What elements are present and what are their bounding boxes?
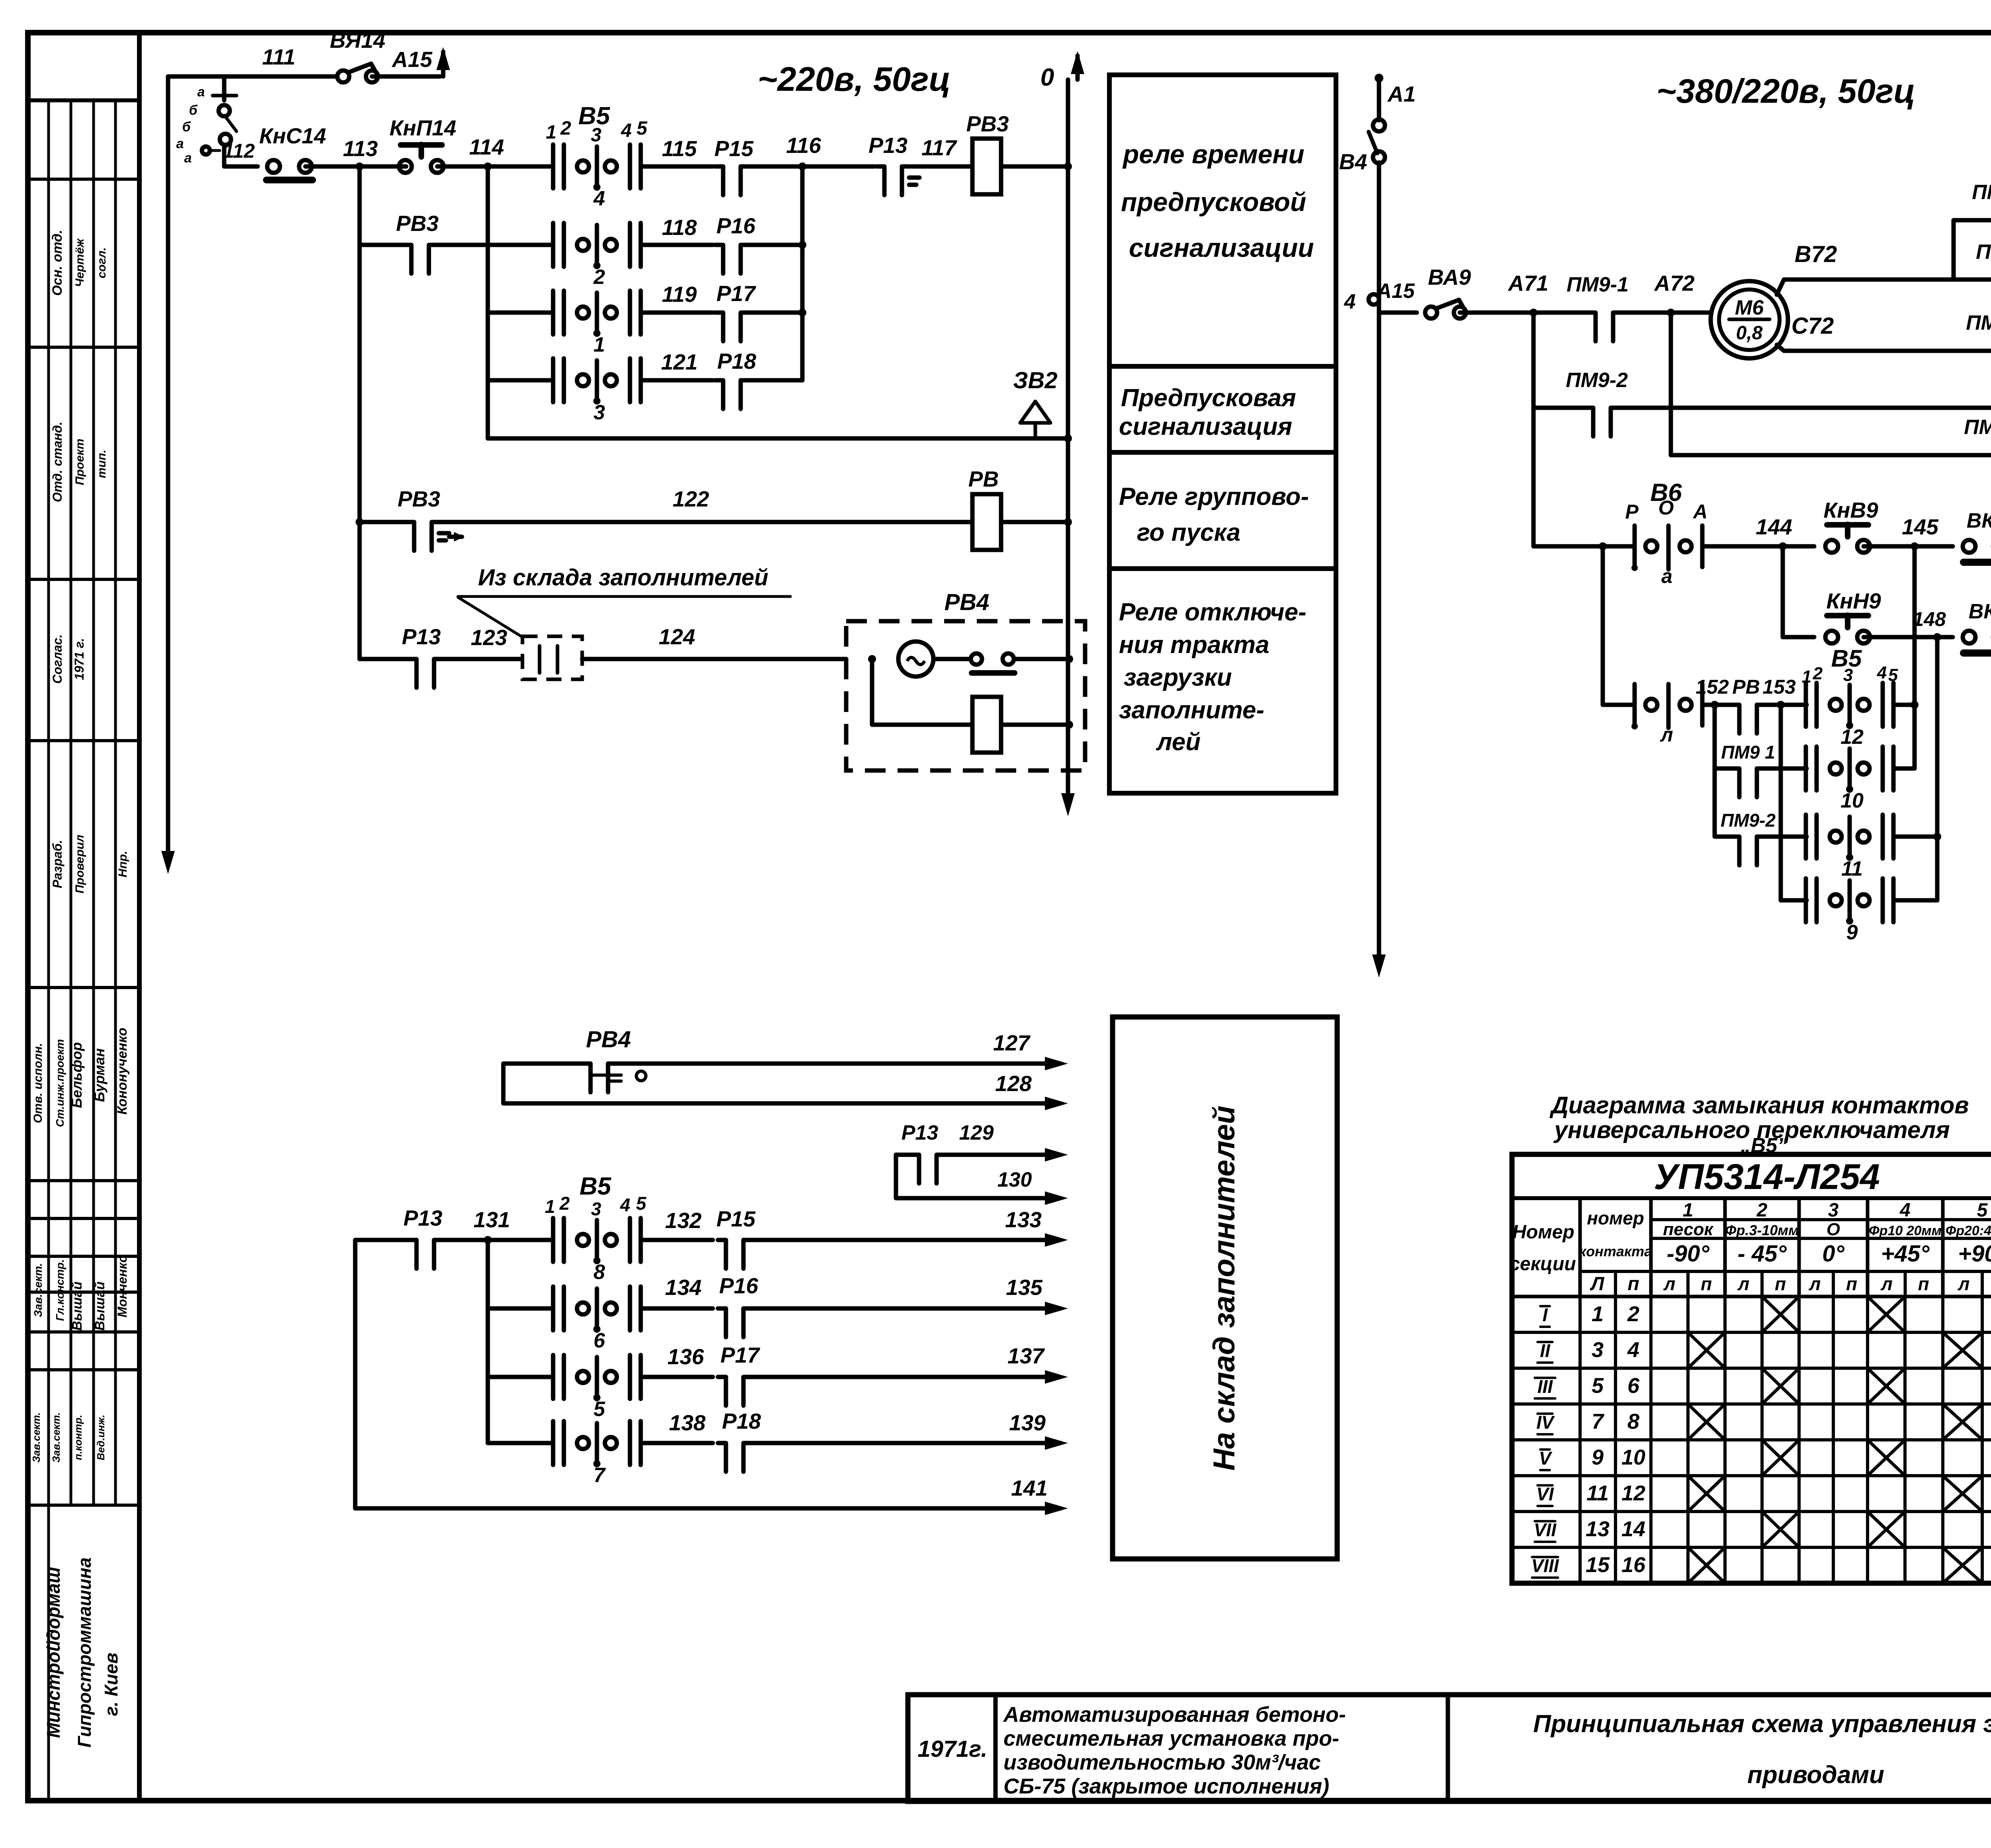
node 144 start (1599, 542, 1607, 550)
svg-text:а: а (1661, 565, 1672, 587)
svg-text:изводительностью 30м³/час: изводительностью 30м³/час (1003, 1750, 1321, 1774)
svg-text:Гипростроммашина: Гипростроммашина (74, 1557, 95, 1748)
limit switch ВК7 (1963, 540, 1975, 553)
wire 117 segment (912, 164, 972, 169)
svg-text:Бельфор: Бельфор (68, 1042, 85, 1108)
svg-text:Минстройдормаш: Минстройдормаш (43, 1567, 64, 1738)
svg-text:II: II (1540, 1340, 1551, 1361)
svg-text:114: 114 (469, 135, 504, 159)
arrow wire 127 (1045, 1057, 1068, 1070)
svg-text:Р16: Р16 (716, 213, 755, 238)
svg-text:А: А (1692, 501, 1707, 523)
svg-text:I: I (1543, 1304, 1548, 1325)
svg-text:15: 15 (1586, 1553, 1610, 1577)
svg-text:б: б (189, 103, 198, 118)
svg-text:4: 4 (1627, 1338, 1639, 1362)
svg-text:12: 12 (1840, 726, 1864, 749)
svg-text:УП5314-Л254: УП5314-Л254 (1654, 1157, 1880, 1197)
wire to node А71 (1460, 311, 1533, 315)
svg-text:2: 2 (593, 266, 605, 289)
contact ПМ9-1 (В phase main) (1954, 278, 1991, 282)
svg-text:137: 137 (1007, 1343, 1045, 1368)
svg-text:номер: номер (1587, 1208, 1644, 1228)
wire A15 segment with up arrow (372, 74, 440, 79)
svg-text:Реле отключе-: Реле отключе- (1119, 598, 1306, 626)
svg-text:Отд. станд.: Отд. станд. (50, 422, 65, 503)
svg-text:116: 116 (786, 133, 821, 158)
wire 141 segment (355, 1506, 1045, 1511)
wire 137 segment (751, 1375, 1045, 1379)
svg-text:Р17: Р17 (716, 281, 756, 306)
wire row11 right to node 148 vertical (1893, 835, 1937, 839)
wire 144 segment (1702, 544, 1814, 549)
svg-text:ВЯ14: ВЯ14 (330, 28, 385, 53)
wire row 138 from node vertical (488, 1441, 553, 1445)
switch В5 section contact 7 (row 138) (551, 1421, 555, 1465)
contact Р16 (row 134) (726, 1305, 744, 1312)
svg-text:8: 8 (1627, 1410, 1639, 1433)
svg-text:п: п (1627, 1273, 1639, 1295)
svg-text:4: 4 (1899, 1200, 1911, 1221)
svg-text:Зав.сект.: Зав.сект. (30, 1412, 42, 1463)
svg-text:Отв. исполн.: Отв. исполн. (31, 1043, 45, 1123)
contact Р13 (row 123) (360, 657, 522, 661)
wire row9 right to node 148 vertical (1893, 898, 1937, 903)
svg-text:Р13: Р13 (902, 1121, 939, 1144)
title block outer box (908, 1695, 1991, 1801)
svg-text:РВ4: РВ4 (945, 589, 990, 615)
svg-text:В72: В72 (1795, 241, 1837, 267)
wire row10 right to node 145 vertical (1893, 767, 1915, 771)
svg-text:4: 4 (620, 1195, 630, 1215)
switch В5 section contact 3 (row 4) (551, 358, 555, 402)
svg-text:5: 5 (594, 1398, 606, 1421)
arrow rail А1 bottom (1372, 954, 1386, 978)
svg-text:14: 14 (1621, 1517, 1645, 1541)
left stamp strip top box divider (28, 98, 139, 102)
svg-text:Фр10 20мм: Фр10 20мм (1869, 1223, 1942, 1238)
wire 118 segment (641, 243, 713, 247)
wire row4 to right vertical (749, 378, 802, 383)
wire 133 segment (751, 1238, 1045, 1242)
svg-text:Вышай: Вышай (70, 1281, 85, 1331)
svg-text:5: 5 (1977, 1200, 1988, 1221)
wire row3 to right vertical (749, 311, 802, 315)
bell inside РВ4 box (898, 641, 933, 677)
svg-text:122: 122 (673, 487, 709, 511)
node 148 (1933, 633, 1941, 641)
text box: Предпусковая сигнализация (1109, 366, 1336, 452)
wire from РВ coil to rail 0 (1001, 520, 1068, 524)
switch В5 section contact 6 (row 134) (551, 1287, 555, 1330)
svg-text:Гл.констр.: Гл.констр. (54, 1259, 66, 1321)
button КнН9 (reverse pushbutton) (1783, 635, 1814, 639)
arrow rail 0 top (1076, 56, 1080, 80)
text box: Реле группового пуска (1109, 452, 1336, 569)
svg-text:Р13: Р13 (402, 624, 441, 649)
contact ПМ9-2 (А71 branch row) (1531, 313, 1536, 546)
node at 114 junction (484, 162, 492, 170)
svg-text:КнВ9: КнВ9 (1823, 498, 1878, 522)
arrow wire 133 (1045, 1233, 1068, 1247)
svg-text:го пуска: го пуска (1137, 519, 1240, 546)
wire 113 segment (305, 164, 406, 169)
svg-text:2: 2 (560, 118, 571, 139)
svg-text:138: 138 (669, 1410, 706, 1435)
wire С72 from motor (1777, 345, 1965, 351)
svg-text:2: 2 (1756, 1200, 1768, 1221)
contact Р18 (row 4) (723, 377, 741, 383)
svg-text:Реле группово-: Реле группово- (1119, 483, 1309, 510)
wire 115 segment (641, 164, 713, 169)
wire 130 bracket (896, 1155, 1045, 1198)
svg-text:6: 6 (1627, 1374, 1640, 1398)
wire lower branch in РВ4 box (872, 659, 972, 725)
row 144: В6 switch contact а (1533, 544, 1635, 549)
svg-text:+90°: +90° (1958, 1241, 1991, 1267)
svg-text:1: 1 (1683, 1200, 1694, 1221)
svg-text:Осн. отд.: Осн. отд. (50, 230, 65, 296)
wire row152 right to node 145 vertical (1893, 703, 1915, 707)
row 152: В6 switch contact л (1603, 703, 1635, 707)
svg-text:На склад заполнителей: На склад заполнителей (1207, 1106, 1241, 1471)
contact ПМ9 1 (row 10) (1715, 767, 1739, 771)
switch В5 section contact 5 (row 136) (551, 1355, 555, 1399)
svg-text:ПМ9 1: ПМ9 1 (1721, 742, 1775, 763)
svg-text:Диаграмма замыкания контактов: Диаграмма замыкания контактов (1549, 1092, 1969, 1119)
motor М6 0,8кВт (1711, 281, 1788, 358)
svg-text:ЗВ2: ЗВ2 (1013, 368, 1057, 393)
node 153 (1777, 701, 1785, 709)
svg-text:б: б (182, 119, 191, 135)
wire vertical 114 branch down (486, 166, 490, 438)
svg-text:112: 112 (223, 140, 255, 162)
svg-text:ПМ9-2: ПМ9-2 (1721, 810, 1776, 831)
relay coil inside РВ4 box (972, 697, 1001, 753)
wire right vertical joining rows 1-4 (800, 166, 805, 380)
relay coil РВ3 (972, 139, 1001, 194)
wire 119 segment (641, 311, 713, 315)
contact ПМ9-1 (А phase) (1595, 309, 1614, 316)
svg-text:КнС14: КнС14 (259, 123, 326, 148)
node А72 (1667, 309, 1675, 317)
svg-text:приводами: приводами (1747, 1761, 1884, 1789)
svg-text:148: 148 (1913, 608, 1946, 630)
wire 114 segment (437, 164, 553, 169)
wire row2 to right vertical (749, 243, 802, 247)
svg-text:А15: А15 (391, 47, 433, 72)
wire 148 segment (1864, 635, 1953, 639)
svg-text:реле времени: реле времени (1122, 139, 1305, 169)
svg-text:ПМ9-1: ПМ9-1 (1976, 241, 1991, 264)
svg-text:С72: С72 (1792, 313, 1834, 339)
wire 128 bracket (503, 1064, 1045, 1103)
svg-text:Соглас.: Соглас. (50, 634, 65, 684)
svg-text:153: 153 (1762, 676, 1796, 698)
svg-text:Р18: Р18 (722, 1409, 761, 1433)
svg-text:сигнализация: сигнализация (1119, 413, 1292, 440)
contact Р15 (row 131) (726, 1237, 744, 1243)
svg-text:11: 11 (1841, 857, 1863, 880)
contact Р17 (row 136) (726, 1374, 744, 1380)
svg-text:124: 124 (659, 624, 695, 649)
svg-text:1971 г.: 1971 г. (72, 638, 86, 680)
svg-text:0,8: 0,8 (1736, 323, 1763, 344)
table В5 header УП5314-Л254 (1512, 1196, 1991, 1200)
svg-text:л: л (1737, 1273, 1750, 1294)
svg-text:п: п (1918, 1273, 1929, 1294)
svg-text:128: 128 (995, 1071, 1032, 1096)
wire row 136 from node vertical (488, 1375, 553, 1379)
switch В5 section contact 4 (row 1) (551, 145, 555, 188)
svg-text:л: л (1663, 1273, 1676, 1294)
contact ПМ9-2 (row 11) (1715, 835, 1739, 839)
svg-text:-90°: -90° (1666, 1241, 1709, 1267)
table В5 data grid rows (1512, 1295, 1991, 1298)
svg-text:Р18: Р18 (717, 349, 756, 374)
contact РВ4 time-delay (row 127) (503, 1062, 1045, 1066)
text box column: реле времени предпусковой сигнализации (1109, 75, 1336, 366)
svg-text:а: а (198, 84, 205, 100)
svg-text:л: л (1880, 1273, 1893, 1294)
svg-text:РВ3: РВ3 (396, 211, 439, 236)
svg-text:Монченко: Монченко (115, 1255, 129, 1317)
svg-text:В5: В5 (579, 1173, 612, 1200)
svg-text:~380/220в, 50гц: ~380/220в, 50гц (1657, 72, 1915, 110)
svg-text:А71: А71 (1508, 271, 1549, 295)
svg-text:сигнализации: сигнализации (1129, 233, 1314, 262)
svg-text:144: 144 (1756, 514, 1792, 539)
svg-text:Р15: Р15 (716, 1207, 756, 1231)
table В5 data grid columns (1578, 1297, 1582, 1583)
button КнС14 (stop pushbutton, NC) (267, 160, 280, 173)
contact ПМ9-2 (А72 branch row) (1669, 313, 1673, 455)
svg-text:129: 129 (959, 1121, 994, 1144)
svg-text:IV: IV (1536, 1412, 1555, 1433)
svg-text:131: 131 (473, 1207, 510, 1232)
svg-text:Принципиальная схема управлени: Принципиальная схема управления электро- (1533, 1710, 1991, 1738)
wire 132 segment (641, 1238, 713, 1242)
wire С71 segment (1965, 349, 1991, 353)
contact РВ (row 152) (1739, 702, 1757, 708)
left stamp strip column line 4 (114, 100, 117, 1505)
svg-text:ния тракта: ния тракта (1119, 631, 1269, 659)
svg-text:Проект: Проект (73, 439, 86, 485)
svg-text:4: 4 (593, 187, 605, 210)
contact РВ3 (row 2) (360, 243, 553, 247)
title block dividers (994, 1695, 998, 1801)
svg-text:12: 12 (1621, 1481, 1645, 1505)
svg-text:тип.: тип. (95, 450, 108, 478)
svg-text:Зав.сект.: Зав.сект. (32, 1263, 44, 1317)
svg-text:0: 0 (1040, 64, 1054, 91)
contact inside РВ4 box (933, 657, 970, 661)
svg-text:Зав.сект.: Зав.сект. (50, 1412, 62, 1463)
svg-text:5: 5 (636, 1193, 647, 1214)
node 131 (484, 1236, 492, 1244)
switch В5 section contact 11 (row 11) (1804, 815, 1808, 858)
svg-text:л: л (1958, 1273, 1970, 1294)
svg-text:132: 132 (665, 1208, 702, 1233)
bell ЗВ2 (signal horn) (1034, 423, 1037, 438)
table В5 X marks (1764, 1298, 1797, 1331)
switch В5 section contact 10 (row 10) (1804, 747, 1808, 790)
left stamp strip column line 3 (92, 100, 95, 1505)
future contact in dashed box (row 123) (522, 636, 582, 679)
left stamp strip column line 2 (70, 100, 72, 1505)
svg-text:В5: В5 (1831, 645, 1862, 672)
svg-text:Фр20:40мм: Фр20:40мм (1946, 1223, 1991, 1238)
arrow wire 129 (1045, 1148, 1068, 1162)
svg-text:О: О (1827, 1220, 1840, 1239)
switch ВЯ14 (knife switch) (337, 70, 349, 82)
svg-text:5: 5 (637, 118, 648, 139)
svg-text:+45°: +45° (1881, 1241, 1930, 1267)
svg-text:п.контр.: п.контр. (72, 1415, 84, 1460)
svg-text:КнП14: КнП14 (389, 115, 456, 140)
switch В5 section contact 1 (row 3) (551, 291, 555, 334)
svg-text:6: 6 (594, 1329, 606, 1352)
svg-text:133: 133 (1005, 1207, 1042, 1232)
button КнП14 (start pushbutton, NO) (399, 160, 412, 173)
svg-text:ПМ9-1: ПМ9-1 (1567, 273, 1629, 296)
table В5 outer box (1512, 1154, 1991, 1583)
svg-text:VIII: VIII (1531, 1555, 1559, 1576)
svg-text:загрузки: загрузки (1124, 664, 1232, 691)
node at КнВ9 branch (1779, 542, 1787, 550)
svg-text:Л: Л (1590, 1273, 1605, 1295)
svg-text:4: 4 (1344, 290, 1356, 313)
svg-text:0°: 0° (1822, 1241, 1844, 1267)
wire rail of lower В5 ladder (353, 1240, 358, 1508)
svg-text:3: 3 (1592, 1338, 1604, 1362)
wire rail 113a vertical (node 113 down) (358, 166, 362, 659)
wire 153 segment (1757, 703, 1807, 707)
svg-text:СБ-75 (закрытое исполнения): СБ-75 (закрытое исполнения) (1003, 1774, 1329, 1798)
svg-text:- 45°: - 45° (1737, 1241, 1787, 1267)
svg-text:3: 3 (591, 125, 602, 146)
svg-text:л: л (1660, 724, 1673, 746)
wire phase rail А1 (1375, 74, 1383, 82)
wire В72 from motor (1777, 280, 1954, 295)
svg-text:152: 152 (1696, 676, 1729, 698)
relay РВ4 dashed enclosure (846, 621, 1085, 770)
svg-text:Вед.инж.: Вед.инж. (95, 1415, 107, 1461)
arrow rail 0 continuation down (1061, 793, 1075, 816)
svg-text:3: 3 (1828, 1200, 1839, 1221)
svg-text:Ст.инж.проект: Ст.инж.проект (54, 1039, 66, 1127)
svg-text:1971г.: 1971г. (917, 1736, 987, 1762)
svg-text:2: 2 (1813, 664, 1823, 683)
svg-text:ВК7: ВК7 (1967, 509, 1991, 532)
contact ПМ9-2 bypass bracket (В phase) (1954, 220, 1991, 280)
switch В5 section contact 9 (row 9) (1781, 898, 1807, 903)
svg-text:ВА9: ВА9 (1428, 265, 1471, 289)
svg-text:Фр.3-10мм: Фр.3-10мм (1725, 1222, 1799, 1238)
svg-text:Из склада заполнителей: Из склада заполнителей (478, 565, 768, 591)
svg-text:ПМ9-2: ПМ9-2 (1566, 369, 1628, 392)
svg-text:г. Киев: г. Киев (101, 1652, 121, 1716)
svg-text:123: 123 (471, 625, 507, 650)
left stamp strip row lines (28, 178, 139, 181)
svg-text:л: л (1809, 1273, 1821, 1294)
wire to node А72 (1533, 311, 1711, 315)
svg-text:Разраб.: Разраб. (50, 840, 65, 888)
svg-text:Р13: Р13 (868, 133, 907, 158)
svg-text:песок: песок (1663, 1220, 1714, 1239)
svg-text:1: 1 (545, 1196, 555, 1217)
svg-text:Кононученко: Кононученко (115, 1028, 130, 1115)
svg-text:а: а (176, 136, 184, 151)
relay coil РВ (group start relay) (972, 494, 1001, 550)
svg-text:V: V (1539, 1448, 1553, 1469)
svg-text:136: 136 (667, 1344, 704, 1369)
svg-text:смесительная установка про-: смесительная установка про- (1003, 1727, 1339, 1750)
contact Р17 (row 3) (723, 309, 741, 316)
arrow wire 137 (1045, 1370, 1068, 1384)
wire from coil to rail 0 in РВ4 box (1001, 723, 1069, 727)
svg-text:Р: Р (1625, 501, 1639, 523)
destination box На склад заполнителей (1113, 1017, 1337, 1559)
svg-text:А15: А15 (1376, 280, 1415, 303)
svg-text:КнН9: КнН9 (1826, 589, 1881, 613)
svg-text:Вышай: Вышай (92, 1281, 108, 1331)
svg-text:127: 127 (993, 1031, 1031, 1055)
svg-text:130: 130 (997, 1168, 1032, 1191)
contact Р15 (row 1) (723, 163, 741, 170)
wire 124 segment (582, 657, 846, 661)
svg-text:8: 8 (594, 1261, 605, 1284)
svg-text:4: 4 (1877, 663, 1887, 682)
wire А15 row segment (1379, 311, 1417, 315)
svg-text:РВ: РВ (1732, 676, 1760, 698)
node wire 124 inside РВ4 box (868, 655, 876, 663)
table В5 л-п subheader row (1614, 1271, 1617, 1297)
svg-text:заполните-: заполните- (1119, 696, 1264, 724)
wire row 134 from node vertical (488, 1306, 553, 1311)
node at 116 junction (798, 162, 806, 170)
svg-text:А1: А1 (1387, 82, 1416, 106)
svg-text:VII: VII (1534, 1519, 1557, 1540)
switch ВА9 (А phase knife) (1425, 307, 1437, 319)
svg-text:141: 141 (1011, 1476, 1048, 1500)
svg-text:Р16: Р16 (719, 1273, 758, 1298)
svg-text:5: 5 (1592, 1374, 1604, 1398)
svg-text:О: О (1659, 497, 1674, 519)
svg-text:10: 10 (1840, 789, 1864, 812)
svg-text:13: 13 (1586, 1517, 1610, 1541)
wire rail А1 continuation down to arrow (1377, 162, 1381, 956)
node А71 (1529, 309, 1537, 317)
connector Ш (plug-socket) drop from wire 111 (222, 78, 227, 100)
svg-text:Бурман: Бурман (91, 1048, 108, 1102)
arrow wire 130 (1045, 1191, 1068, 1205)
svg-text:~220в, 50гц: ~220в, 50гц (758, 61, 951, 98)
svg-text:10: 10 (1621, 1445, 1645, 1469)
svg-text:согл.: согл. (95, 247, 108, 278)
wire 112 segment (224, 164, 258, 169)
svg-text:п: п (1846, 1273, 1857, 1294)
svg-text:135: 135 (1006, 1275, 1043, 1300)
wire from РВ3 coil to rail 0 (1001, 164, 1068, 169)
wire 145 segment (1864, 544, 1953, 549)
wire 121 segment (641, 378, 713, 383)
wire 134 segment (641, 1306, 713, 1311)
svg-text:ПМ9-2: ПМ9-2 (1972, 181, 1991, 204)
svg-text:118: 118 (662, 215, 697, 240)
svg-text:7: 7 (594, 1464, 606, 1487)
svg-text:предпусковой: предпусковой (1121, 187, 1306, 217)
